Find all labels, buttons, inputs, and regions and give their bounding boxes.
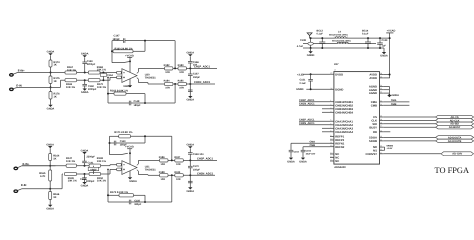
svg-text:+VCAD: +VCAD — [125, 54, 134, 57]
svg-text:BUSY: BUSY — [369, 126, 377, 129]
svg-text:1: 1 — [334, 35, 335, 38]
svg-text:+3.3D: +3.3D — [297, 73, 304, 76]
svg-text:GNDA: GNDA — [81, 149, 89, 152]
svg-text:CONVST: CONVST — [366, 153, 378, 156]
svg-text:37: 37 — [380, 125, 382, 128]
svg-text:+VCAD: +VCAD — [387, 30, 396, 33]
svg-text:VREF: VREF — [90, 168, 97, 171]
svg-text:E-IN: E-IN — [21, 184, 26, 187]
svg-text:TO FPGA: TO FPGA — [435, 166, 470, 175]
svg-text:SDOB: SDOB — [369, 140, 377, 143]
svg-text:150pF: 150pF — [193, 76, 201, 79]
svg-text:GNDA: GNDA — [186, 190, 194, 193]
svg-text:CHB1P/CHB1: CHB1P/CHB1 — [335, 101, 353, 104]
svg-text:CH1N_ADC1: CH1N_ADC1 — [194, 81, 211, 84]
svg-text:0.1uF: 0.1uF — [317, 33, 324, 36]
svg-text:10R: 10R — [179, 87, 184, 90]
svg-text:10R: 10R — [161, 178, 166, 181]
svg-text:GNDA: GNDA — [129, 180, 137, 183]
svg-text:C139: C139 — [382, 39, 388, 42]
svg-text:4.7K: 4.7K — [40, 175, 46, 178]
svg-text:10K 1%: 10K 1% — [66, 160, 76, 163]
svg-text:GNDA: GNDA — [46, 143, 54, 146]
svg-text:CHA4N/CHA4: CHA4N/CHA4 — [335, 131, 353, 134]
svg-text:DGND: DGND — [335, 88, 343, 91]
svg-text:R188: R188 — [159, 171, 165, 174]
svg-text:GNDA: GNDA — [380, 55, 388, 58]
svg-text:21: 21 — [380, 99, 382, 102]
svg-text:1K: 1K — [53, 196, 56, 199]
svg-text:1K: 1K — [53, 157, 56, 160]
svg-text:AVDD: AVDD — [369, 77, 377, 80]
svg-text:0R080: 0R080 — [387, 145, 394, 148]
svg-text:1uF: 1uF — [382, 45, 387, 48]
svg-text:CHB4N/CHB4: CHB4N/CHB4 — [335, 111, 353, 114]
svg-text:C164: C164 — [107, 74, 113, 77]
svg-text:10K 1%: 10K 1% — [66, 86, 76, 89]
svg-text:THS4521: THS4521 — [145, 77, 157, 80]
svg-text:22: 22 — [380, 91, 382, 94]
svg-text:10K 1%: 10K 1% — [97, 69, 107, 72]
svg-text:12: 12 — [330, 144, 332, 147]
svg-text:NC: NC — [335, 160, 339, 163]
svg-text:180pF: 180pF — [134, 203, 142, 206]
svg-text:R173 24.9K 1%: R173 24.9K 1% — [110, 191, 129, 194]
svg-text:10R: 10R — [179, 71, 184, 74]
svg-text:GNDA: GNDA — [46, 208, 54, 211]
svg-text:20: 20 — [380, 103, 382, 106]
svg-text:GNDA: GNDA — [81, 185, 89, 188]
svg-text:AD-DOUTB: AD-DOUTB — [448, 140, 462, 143]
svg-text:10R: 10R — [165, 87, 170, 90]
svg-text:1K: 1K — [54, 80, 57, 83]
svg-text:38: 38 — [380, 121, 382, 124]
svg-text:GNDA: GNDA — [186, 52, 194, 55]
svg-text:R183: R183 — [178, 64, 184, 67]
svg-text:10R: 10R — [176, 163, 181, 166]
svg-text:C153: C153 — [294, 150, 300, 153]
svg-text:39: 39 — [380, 118, 382, 121]
svg-text:180pF: 180pF — [134, 104, 142, 107]
svg-text:THS4521: THS4521 — [145, 169, 157, 172]
svg-text:CH1P_ADC1: CH1P_ADC1 — [194, 66, 210, 69]
svg-text:GNDD: GNDD — [296, 88, 304, 91]
svg-text:23: 23 — [380, 87, 382, 90]
svg-text:10K 1%: 10K 1% — [97, 86, 107, 89]
svg-text:CH2N_ADC1: CH2N_ADC1 — [197, 172, 214, 175]
svg-text:E-IN: E-IN — [16, 84, 21, 87]
svg-text:GNDA: GNDA — [81, 53, 89, 56]
svg-text:10uF 16V: 10uF 16V — [306, 153, 316, 156]
svg-text:0604A/CH63-10R01: 0604A/CH63-10R01 — [332, 39, 352, 42]
svg-text:R189: R189 — [174, 171, 180, 174]
svg-text:13: 13 — [330, 152, 332, 155]
svg-text:C148: C148 — [134, 100, 140, 103]
svg-text:8: 8 — [330, 129, 331, 132]
svg-text:0604A/CH63-10R01: 0604A/CH63-10R01 — [329, 34, 349, 37]
svg-text:ADS4249: ADS4249 — [334, 166, 346, 169]
svg-text:1: 1 — [330, 99, 331, 102]
svg-text:GNDA: GNDA — [186, 99, 194, 102]
svg-text:DVDD: DVDD — [335, 73, 343, 76]
svg-text:4: 4 — [330, 110, 331, 113]
svg-text:R187: R187 — [174, 156, 180, 159]
svg-text:R185: R185 — [178, 79, 184, 82]
svg-text:RD: RD — [373, 131, 377, 134]
svg-text:CMA: CMA — [391, 99, 397, 102]
svg-text:CHA1P/CHA1: CHA1P/CHA1 — [335, 120, 353, 123]
svg-text:27: 27 — [334, 69, 336, 72]
svg-text:GNDA: GNDA — [81, 91, 89, 94]
svg-text:27: 27 — [330, 72, 332, 75]
svg-text:+VCAD: +VCAD — [125, 146, 134, 149]
svg-text:0.1uF: 0.1uF — [362, 33, 369, 36]
svg-text:33: 33 — [380, 145, 382, 148]
svg-text:R160 24.9K 1%: R160 24.9K 1% — [115, 48, 134, 51]
svg-text:31: 31 — [380, 151, 382, 154]
svg-text:R171 24.9K 1%: R171 24.9K 1% — [114, 131, 133, 134]
svg-text:R182: R182 — [164, 64, 170, 67]
svg-text:150pF: 150pF — [193, 168, 201, 171]
svg-text:2200pF: 2200pF — [87, 63, 96, 66]
svg-text:2: 2 — [347, 35, 348, 38]
svg-text:11: 11 — [330, 141, 332, 144]
svg-text:GNDA: GNDA — [47, 108, 55, 111]
svg-text:U17: U17 — [334, 63, 339, 66]
svg-text:GNDA: GNDA — [47, 51, 55, 54]
svg-text:7: 7 — [330, 126, 331, 129]
svg-text:2200pF: 2200pF — [86, 180, 95, 183]
svg-text:6: 6 — [330, 122, 331, 125]
svg-text:10K 1%: 10K 1% — [68, 180, 78, 183]
svg-text:34: 34 — [380, 138, 382, 141]
svg-text:R184: R184 — [164, 79, 170, 82]
svg-text:1K: 1K — [54, 64, 57, 67]
svg-text:1K: 1K — [54, 95, 57, 98]
svg-text:14: 14 — [330, 155, 332, 158]
svg-text:CMB: CMB — [391, 103, 397, 106]
svg-text:0.1uF: 0.1uF — [300, 82, 307, 85]
svg-text:CMB: CMB — [371, 104, 377, 107]
svg-text:AGND: AGND — [369, 92, 377, 95]
svg-text:10R: 10R — [165, 71, 170, 74]
svg-text:36: 36 — [380, 129, 382, 132]
svg-text:2200pF: 2200pF — [87, 155, 96, 158]
svg-text:R186: R186 — [159, 156, 165, 159]
svg-text:GNDA: GNDA — [123, 85, 131, 88]
svg-text:C147: C147 — [114, 34, 121, 37]
svg-text:5: 5 — [330, 119, 331, 122]
svg-text:40: 40 — [380, 115, 382, 118]
svg-text:4.7uF: 4.7uF — [297, 45, 304, 48]
svg-text:+1.8V: +1.8V — [387, 147, 393, 150]
svg-text:2200pF: 2200pF — [88, 88, 97, 91]
svg-text:26: 26 — [330, 87, 332, 90]
svg-text:GNDA: GNDA — [287, 160, 295, 163]
svg-text:C154: C154 — [306, 150, 312, 153]
svg-text:C169 104: C169 104 — [193, 153, 204, 156]
svg-text:10K 1%: 10K 1% — [67, 69, 77, 72]
svg-text:24: 24 — [380, 84, 382, 87]
svg-text:GNDA: GNDA — [392, 94, 400, 97]
svg-text:C141: C141 — [88, 161, 94, 164]
svg-text:25: 25 — [380, 75, 382, 78]
svg-text:GNDA: GNDA — [299, 160, 307, 163]
svg-text:10: 10 — [330, 138, 332, 141]
svg-text:C138: C138 — [300, 39, 306, 42]
svg-text:10K 1%: 10K 1% — [97, 160, 107, 163]
svg-text:GNDD: GNDD — [307, 54, 315, 57]
svg-text:32: 32 — [380, 148, 382, 151]
svg-text:28: 28 — [380, 72, 382, 75]
svg-text:35: 35 — [380, 135, 382, 138]
svg-text:10R: 10R — [176, 178, 181, 181]
svg-text:15: 15 — [330, 159, 332, 162]
svg-text:CH2P_ADC1: CH2P_ADC1 — [197, 158, 213, 161]
svg-text:10K 1%: 10K 1% — [97, 180, 107, 183]
svg-text:REFN2: REFN2 — [335, 146, 344, 149]
svg-text:R162 24.9K 1%: R162 24.9K 1% — [110, 90, 129, 93]
svg-text:2: 2 — [330, 103, 331, 106]
svg-text:GNDA: GNDA — [186, 144, 194, 147]
svg-text:10R: 10R — [161, 163, 166, 166]
svg-text:AD-BUSY: AD-BUSY — [449, 126, 461, 129]
svg-text:AD-CNV: AD-CNV — [452, 153, 462, 156]
svg-text:3: 3 — [330, 106, 331, 109]
svg-text:9: 9 — [330, 134, 331, 137]
